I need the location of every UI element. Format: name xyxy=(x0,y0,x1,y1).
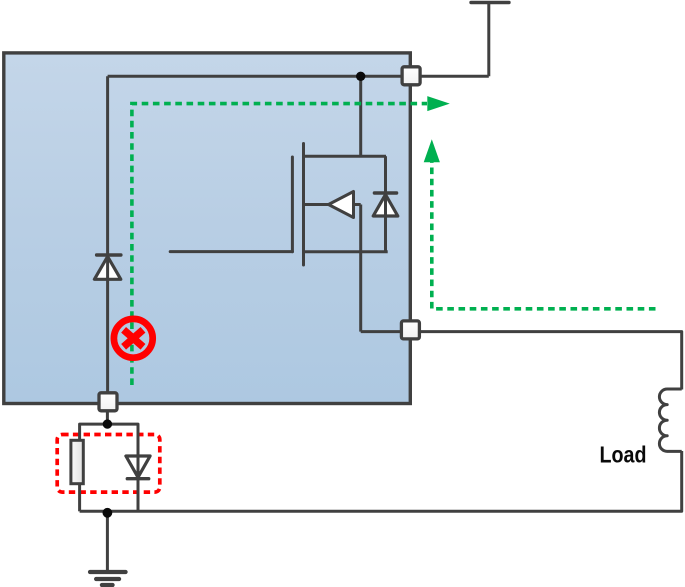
supply rail bar xyxy=(471,1,509,4)
gate lead wire xyxy=(170,250,292,253)
wire COM terminal to clamp junction xyxy=(106,395,109,424)
green dashed path load current xyxy=(432,162,656,309)
wire clamp top branch xyxy=(80,424,138,456)
diode D2 body diode of Q1 xyxy=(373,156,398,252)
source bar xyxy=(304,250,388,253)
resistor R1 xyxy=(71,440,83,483)
arrowhead load current path xyxy=(424,139,440,162)
terminal pin OUT (right) xyxy=(401,321,419,339)
driver module box U1 xyxy=(4,53,411,404)
svg-text:Load: Load xyxy=(600,442,647,468)
wire top rail inside module (node VS) xyxy=(108,75,489,78)
green dashed path blocked bootstrap current xyxy=(132,104,427,385)
wire load bottom to ground net xyxy=(80,451,682,511)
ground symbol xyxy=(90,572,126,585)
junction node ground xyxy=(103,508,113,518)
blocked indicator red circle X xyxy=(114,319,153,358)
wire supply rail to VS terminal xyxy=(487,3,490,77)
substrate lead xyxy=(304,203,330,206)
gate plate xyxy=(291,157,294,252)
wire resistor bottom branch xyxy=(78,484,81,512)
terminal pin VS (top) xyxy=(402,67,420,85)
substrate arrow xyxy=(329,192,354,218)
transistor Q1 power MOSFET xyxy=(170,144,388,332)
wire drain from top rail xyxy=(359,76,362,156)
channel plate xyxy=(302,144,305,266)
inductor L1 Load xyxy=(659,389,681,451)
diode D3 clamp (pointing down) xyxy=(126,424,150,511)
arrowhead blocked path xyxy=(427,96,450,111)
terminal pin COM (bottom) xyxy=(99,393,117,411)
wire source to OUT terminal xyxy=(361,330,420,333)
junction node drain/VS xyxy=(356,72,365,81)
diode D1 bootstrap (in module, pointing up) xyxy=(94,254,121,281)
junction node clamp top xyxy=(103,419,112,428)
wire source vertical xyxy=(359,205,362,332)
drain bar xyxy=(304,155,387,158)
substrate lead to source xyxy=(354,203,361,206)
wire OUT terminal to load top xyxy=(420,332,682,390)
red dashed highlight box around clamp network xyxy=(57,435,160,493)
wire left bootstrap branch xyxy=(106,76,109,395)
wire ground stem xyxy=(106,511,109,572)
